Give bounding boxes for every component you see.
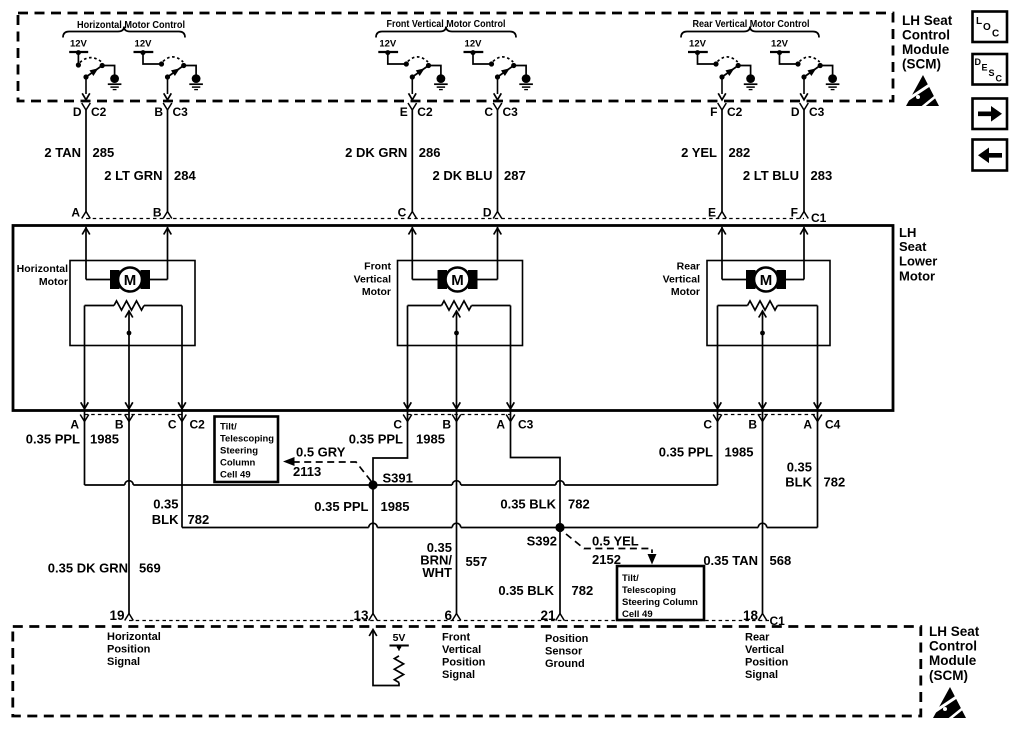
wire: sensor left lead down (rear vertical) xyxy=(714,306,722,422)
connector line C1 (lower motor, top) xyxy=(86,211,827,225)
pin A (lower motor connector top) xyxy=(71,206,90,220)
wire: sensor left lead down (horizontal) xyxy=(81,306,89,422)
svg-text:(SCM): (SCM) xyxy=(929,668,968,683)
svg-text:B: B xyxy=(154,105,163,119)
svg-text:Cell 49: Cell 49 xyxy=(220,470,251,481)
position sensor potentiometer (front vertical) xyxy=(408,301,511,310)
svg-text:Position: Position xyxy=(107,644,151,656)
svg-text:Telescoping: Telescoping xyxy=(622,585,676,596)
Tilt/Telescoping Steering Column Cell 49 box (upper) xyxy=(215,417,279,483)
svg-text:C: C xyxy=(992,29,999,40)
svg-text:Sensor: Sensor xyxy=(545,646,583,658)
wire 0.35 BLK 782 (horizontal sensor ground, pin C to ground bus) xyxy=(152,422,209,528)
connector dashed line C4 (lower motor bottom pins) xyxy=(718,414,818,416)
svg-text:0.35 PPL: 0.35 PPL xyxy=(26,432,80,447)
svg-text:12V: 12V xyxy=(135,39,153,50)
svg-text:Cell 49: Cell 49 xyxy=(622,609,653,620)
svg-text:F: F xyxy=(710,105,717,119)
LH Seat Lower Motor box xyxy=(13,226,893,411)
wire 0.35 PPL 1985 (horizontal sensor feed, pin A to S391 bus) xyxy=(26,422,119,486)
svg-text:6: 6 xyxy=(444,608,452,623)
svg-text:B: B xyxy=(442,418,451,432)
motor M (horizontal) xyxy=(110,268,150,292)
bus wire: sensor ground BLK 782 (S392 horizontal run) xyxy=(182,523,818,527)
svg-text:Horizontal: Horizontal xyxy=(107,631,161,643)
svg-text:12V: 12V xyxy=(465,39,483,50)
svg-text:C2: C2 xyxy=(91,105,107,119)
svg-text:Horizontal Motor Control: Horizontal Motor Control xyxy=(77,20,185,31)
wire 0.35 DK GRN 569 (horizontal position signal to pin 19) xyxy=(48,422,161,614)
svg-text:C4: C4 xyxy=(825,418,841,432)
svg-text:C: C xyxy=(703,418,712,432)
svg-text:Steering: Steering xyxy=(220,446,258,457)
pin A (lower motor connector bottom, C3) xyxy=(496,415,533,432)
LH Seat Control Module (SCM) bottom dashed box xyxy=(13,627,921,717)
label: LH Seat Control Module (SCM) top right xyxy=(902,13,953,72)
pin F of connector C2 (SCM top) xyxy=(710,103,743,119)
svg-text:D: D xyxy=(975,57,982,67)
wire: feed into horizontal motor (left) xyxy=(82,227,111,280)
svg-text:284: 284 xyxy=(174,168,196,183)
svg-text:E: E xyxy=(982,63,988,73)
horizontal motor assembly box xyxy=(70,261,195,346)
svg-text:Position: Position xyxy=(442,657,486,669)
wiper down-arrow at box edge (rear vertical) xyxy=(759,402,767,409)
pin 18 (SCM bottom connector) xyxy=(743,608,767,623)
svg-text:12V: 12V xyxy=(689,39,707,50)
pin D of connector C2 (SCM top) xyxy=(73,103,107,119)
bus wire: 5V reference PPL 1985 (S391 horizontal run) xyxy=(85,481,718,485)
wire 2 YEL 282 xyxy=(681,110,750,212)
label: LH Seat Lower Motor xyxy=(899,225,937,284)
svg-text:Position: Position xyxy=(545,633,589,645)
svg-text:C: C xyxy=(393,418,402,432)
connector dashed line (bottom SCM pins) xyxy=(129,620,770,622)
svg-text:C1: C1 xyxy=(811,211,827,225)
5V pull-up circuit inside SCM xyxy=(369,630,399,686)
connector dashed line C3 (lower motor bottom pins) xyxy=(408,414,511,416)
svg-text:Rear: Rear xyxy=(745,632,770,644)
svg-text:B: B xyxy=(153,206,162,220)
switch SW1A horizontal fwd (12V/ground selector) xyxy=(69,39,121,100)
svg-text:569: 569 xyxy=(139,561,161,576)
label: Position Sensor Ground (pin 21) xyxy=(545,633,589,670)
label: Horizontal Position Signal (pin 19) xyxy=(107,631,161,668)
svg-text:C: C xyxy=(168,418,177,432)
svg-text:Tilt/: Tilt/ xyxy=(622,573,639,584)
svg-text:LH: LH xyxy=(899,225,916,240)
svg-text:1985: 1985 xyxy=(90,432,119,447)
pin D of connector C3 (SCM top) xyxy=(791,103,825,119)
icon button: previous arrow xyxy=(973,140,1008,171)
pin B (lower motor connector bottom) xyxy=(442,415,460,432)
wiper down-arrow at box edge (horizontal) xyxy=(125,402,133,409)
wire 0.35 BRN/WHT 557 (front vertical position signal to pin 6) xyxy=(420,422,487,614)
svg-text:Horizontal: Horizontal xyxy=(17,263,68,275)
svg-text:Front: Front xyxy=(442,632,470,644)
svg-text:Control: Control xyxy=(902,28,950,43)
svg-text:E: E xyxy=(708,206,716,220)
svg-text:0.35: 0.35 xyxy=(787,460,812,475)
pin C (lower motor connector bottom) xyxy=(703,415,721,432)
svg-text:782: 782 xyxy=(824,475,846,490)
pin C of connector C3 (SCM top) xyxy=(484,103,518,119)
icon button: LOC xyxy=(973,12,1008,43)
svg-text:Vertical: Vertical xyxy=(663,273,700,285)
label: Horizontal Motor xyxy=(17,263,68,288)
motor M (rear vertical) xyxy=(746,268,786,292)
svg-text:D: D xyxy=(791,105,800,119)
wire 0.35 TAN 568 (rear vertical position signal to pin 18) xyxy=(703,422,791,614)
svg-text:Position: Position xyxy=(745,657,789,669)
wire: feed into front vertical motor (left) xyxy=(409,227,439,280)
svg-text:12V: 12V xyxy=(379,39,397,50)
svg-text:L: L xyxy=(976,16,982,27)
svg-text:C3: C3 xyxy=(503,105,519,119)
wire 2 LT GRN 284 xyxy=(104,110,196,212)
svg-text:Control: Control xyxy=(929,639,977,654)
svg-text:19: 19 xyxy=(109,608,124,623)
5V supply tap xyxy=(390,632,409,649)
svg-text:18: 18 xyxy=(743,608,759,623)
svg-text:12V: 12V xyxy=(70,39,88,50)
switch SW3B rear vertical down (12V/ground selector) xyxy=(770,39,839,100)
switch SW3A rear vertical up (12V/ground selector) xyxy=(688,39,757,100)
splice S391 xyxy=(368,471,412,490)
svg-text:S: S xyxy=(989,68,995,78)
svg-text:13: 13 xyxy=(353,608,369,623)
label: Front Vertical Position Signal (pin 6) xyxy=(442,632,486,682)
svg-text:A: A xyxy=(70,418,79,432)
svg-text:2 LT BLU: 2 LT BLU xyxy=(743,168,799,183)
svg-text:LH Seat: LH Seat xyxy=(902,13,953,28)
label: Front Vertical Motor Control group title + brace xyxy=(376,19,516,38)
Tilt/Telescoping Steering Column Cell 49 box (lower) xyxy=(617,566,704,620)
svg-text:Signal: Signal xyxy=(107,656,140,668)
wire 0.35 BLK 782 (S392 down to pin 21) xyxy=(498,528,593,614)
svg-text:782: 782 xyxy=(568,497,590,512)
svg-text:C3: C3 xyxy=(518,418,534,432)
svg-text:Rear: Rear xyxy=(677,261,700,273)
svg-text:12V: 12V xyxy=(771,39,789,50)
svg-text:BLK: BLK xyxy=(785,475,812,490)
svg-text:21: 21 xyxy=(540,608,556,623)
position sensor potentiometer (horizontal) xyxy=(85,301,183,310)
svg-text:C: C xyxy=(996,74,1003,84)
wire 2 TAN 285 xyxy=(44,110,114,212)
pin B (lower motor connector bottom) xyxy=(115,415,133,432)
svg-text:286: 286 xyxy=(419,145,441,160)
svg-text:Column: Column xyxy=(220,458,256,469)
svg-text:Motor: Motor xyxy=(899,269,935,284)
wire 2 DK GRN 286 xyxy=(345,110,440,212)
svg-text:Motor: Motor xyxy=(362,286,391,298)
svg-text:Motor: Motor xyxy=(39,276,68,288)
svg-text:2113: 2113 xyxy=(293,464,321,479)
svg-text:C2: C2 xyxy=(417,105,433,119)
svg-text:Module: Module xyxy=(902,42,950,57)
svg-text:285: 285 xyxy=(93,145,115,160)
wire 0.35 PPL 1985 (S391 down to pin 13) xyxy=(314,485,409,614)
label: Rear Vertical Motor Control group title + brace xyxy=(681,19,819,38)
wiper down-arrow at box edge (front vertical) xyxy=(453,402,461,409)
ESD sensitivity symbol (top) xyxy=(904,75,941,109)
svg-text:Vertical: Vertical xyxy=(745,644,784,656)
svg-text:Tilt/: Tilt/ xyxy=(220,422,237,433)
wiper wire with arrow + junction dot (rear vertical) xyxy=(759,311,767,422)
svg-text:WHT: WHT xyxy=(422,565,452,580)
svg-text:C: C xyxy=(398,206,407,220)
wire 0.35 PPL 1985 (front vertical sensor feed, pin C jog to S391) xyxy=(349,422,445,482)
svg-text:Vertical: Vertical xyxy=(354,273,391,285)
svg-text:BLK: BLK xyxy=(152,512,179,527)
svg-text:Vertical: Vertical xyxy=(442,644,481,656)
pin D (lower motor connector top) xyxy=(483,206,502,220)
svg-text:C3: C3 xyxy=(173,105,189,119)
connector dashed line C2 (lower motor bottom pins) xyxy=(85,414,183,416)
svg-text:2 DK BLU: 2 DK BLU xyxy=(433,168,493,183)
svg-text:B: B xyxy=(115,418,124,432)
svg-text:C2: C2 xyxy=(190,418,206,432)
front vertical motor assembly box xyxy=(398,261,523,346)
LH Seat Control Module (SCM) top dashed box xyxy=(18,13,893,101)
svg-text:283: 283 xyxy=(811,168,833,183)
pin 19 (SCM bottom connector) xyxy=(109,608,133,623)
pin C (lower motor connector bottom, C2) xyxy=(168,415,205,432)
svg-text:C: C xyxy=(484,105,493,119)
icon button: DESC xyxy=(973,54,1008,85)
pin 13 (SCM bottom connector) xyxy=(353,608,377,623)
svg-text:Seat: Seat xyxy=(899,239,927,254)
label: Horizontal Motor Control group title + brace xyxy=(63,20,185,38)
wire 0.35 BLK 782 (front vertical sensor ground, pin A jog to S392) xyxy=(500,422,589,524)
svg-text:A: A xyxy=(496,418,505,432)
wire 2 LT BLU 283 xyxy=(743,110,832,212)
svg-text:0.35 PPL: 0.35 PPL xyxy=(659,445,713,460)
pin A (lower motor connector bottom) xyxy=(70,415,88,432)
svg-text:1985: 1985 xyxy=(725,445,754,460)
svg-text:0.35 BLK: 0.35 BLK xyxy=(498,583,554,598)
svg-text:Module: Module xyxy=(929,653,977,668)
svg-text:Steering Column: Steering Column xyxy=(622,597,698,608)
svg-text:Front: Front xyxy=(364,261,391,273)
pin E of connector C2 (SCM top) xyxy=(400,103,433,119)
svg-text:0.35 TAN: 0.35 TAN xyxy=(703,553,758,568)
connector label C1 (bottom SCM) xyxy=(770,614,786,628)
svg-text:0.5 YEL: 0.5 YEL xyxy=(592,534,639,549)
svg-text:Telescoping: Telescoping xyxy=(220,434,274,445)
pin B (lower motor connector bottom) xyxy=(748,415,766,432)
svg-text:0.35: 0.35 xyxy=(153,497,178,512)
wiper wire with arrow + junction dot (horizontal) xyxy=(125,311,133,422)
svg-text:Signal: Signal xyxy=(442,669,475,681)
svg-text:E: E xyxy=(400,105,408,119)
svg-text:Ground: Ground xyxy=(545,658,585,670)
pin 6 (SCM bottom connector) xyxy=(444,608,460,623)
pin F (lower motor connector top) xyxy=(791,206,809,220)
svg-text:C3: C3 xyxy=(809,105,825,119)
svg-text:Signal: Signal xyxy=(745,669,778,681)
svg-text:2 TAN: 2 TAN xyxy=(44,145,81,160)
svg-text:A: A xyxy=(803,418,812,432)
svg-text:2 YEL: 2 YEL xyxy=(681,145,717,160)
pin 21 (SCM bottom connector) xyxy=(540,608,564,623)
wire: sensor right lead down (rear vertical) xyxy=(814,306,822,422)
svg-text:B: B xyxy=(748,418,757,432)
svg-text:1985: 1985 xyxy=(416,432,445,447)
svg-text:0.35 BLK: 0.35 BLK xyxy=(500,497,556,512)
svg-text:D: D xyxy=(483,206,492,220)
wire: feed into rear vertical motor (right) xyxy=(785,227,808,280)
svg-text:287: 287 xyxy=(504,168,526,183)
dashed wire 0.5 YEL 2152 to Tilt/Telescoping Steering Column xyxy=(566,534,657,568)
svg-text:568: 568 xyxy=(770,553,792,568)
svg-text:282: 282 xyxy=(729,145,751,160)
pin C (lower motor connector bottom) xyxy=(393,415,411,432)
motor M (front vertical) xyxy=(438,268,478,292)
wire: sensor right lead down (front vertical) xyxy=(507,306,515,422)
svg-text:Motor: Motor xyxy=(671,286,700,298)
wire: sensor right lead down (horizontal) xyxy=(178,306,186,422)
svg-text:0.5 GRY: 0.5 GRY xyxy=(296,445,346,460)
icon button: next arrow xyxy=(973,99,1008,130)
svg-text:5V: 5V xyxy=(393,632,406,644)
svg-text:S391: S391 xyxy=(383,471,413,486)
wire: feed into rear vertical motor (left) xyxy=(718,227,747,280)
svg-text:557: 557 xyxy=(466,554,488,569)
svg-text:F: F xyxy=(791,206,798,220)
switch SW1B horizontal rev (12V/ground selector) xyxy=(134,39,203,100)
svg-text:2 DK GRN: 2 DK GRN xyxy=(345,145,407,160)
wire 0.35 PPL 1985 (rear vertical sensor feed, pin C down to bus) xyxy=(659,422,754,486)
svg-text:LH Seat: LH Seat xyxy=(929,624,980,639)
svg-text:O: O xyxy=(983,22,991,33)
wiper wire with arrow + junction dot (front vertical) xyxy=(453,311,461,422)
resistor (5V pull-up) xyxy=(394,646,403,683)
svg-text:D: D xyxy=(73,105,82,119)
splice S392 xyxy=(527,523,565,549)
svg-text:(SCM): (SCM) xyxy=(902,57,941,72)
svg-text:0.35 PPL: 0.35 PPL xyxy=(314,499,368,514)
wire 2 DK BLU 287 xyxy=(433,110,526,212)
ESD sensitivity symbol (bottom) xyxy=(931,687,968,721)
svg-text:0.35 DK GRN: 0.35 DK GRN xyxy=(48,561,128,576)
svg-text:0.35 PPL: 0.35 PPL xyxy=(349,432,403,447)
dashed wire 0.5 GRY 2113 to Tilt/Telescoping Steering Column xyxy=(283,445,371,482)
pin E (lower motor connector top) xyxy=(708,206,726,220)
pin C (lower motor connector top) xyxy=(398,206,417,220)
label: LH Seat Control Module (SCM) bottom right xyxy=(929,624,980,683)
wire: sensor left lead down (front vertical) xyxy=(404,306,412,422)
rear vertical motor assembly box xyxy=(707,261,830,346)
pin B of connector C3 (SCM top) xyxy=(154,103,188,119)
wire: feed into front vertical motor (right) xyxy=(477,227,502,280)
svg-text:S392: S392 xyxy=(527,534,557,549)
label: Rear Vertical Position Signal (pin 18) xyxy=(745,632,789,682)
svg-text:C2: C2 xyxy=(727,105,743,119)
label: Rear Vertical Motor xyxy=(663,261,700,299)
pin A (lower motor connector bottom, C4) xyxy=(803,415,840,432)
svg-text:782: 782 xyxy=(188,512,210,527)
switch SW2B front vertical down (12V/ground selector) xyxy=(464,39,533,100)
wire: feed into horizontal motor (right) xyxy=(149,227,171,280)
svg-text:782: 782 xyxy=(572,583,594,598)
svg-text:1985: 1985 xyxy=(381,499,410,514)
switch SW2A front vertical up (12V/ground selector) xyxy=(378,39,447,100)
position sensor potentiometer (rear vertical) xyxy=(718,301,818,310)
svg-text:A: A xyxy=(71,206,80,220)
svg-text:Lower: Lower xyxy=(899,254,937,269)
wire 0.35 BLK 782 (rear vertical sensor ground, pin A / C4 down to bus) xyxy=(785,422,845,528)
svg-text:2 LT GRN: 2 LT GRN xyxy=(104,168,162,183)
pin B (lower motor connector top) xyxy=(153,206,172,220)
label: Front Vertical Motor xyxy=(354,261,392,299)
